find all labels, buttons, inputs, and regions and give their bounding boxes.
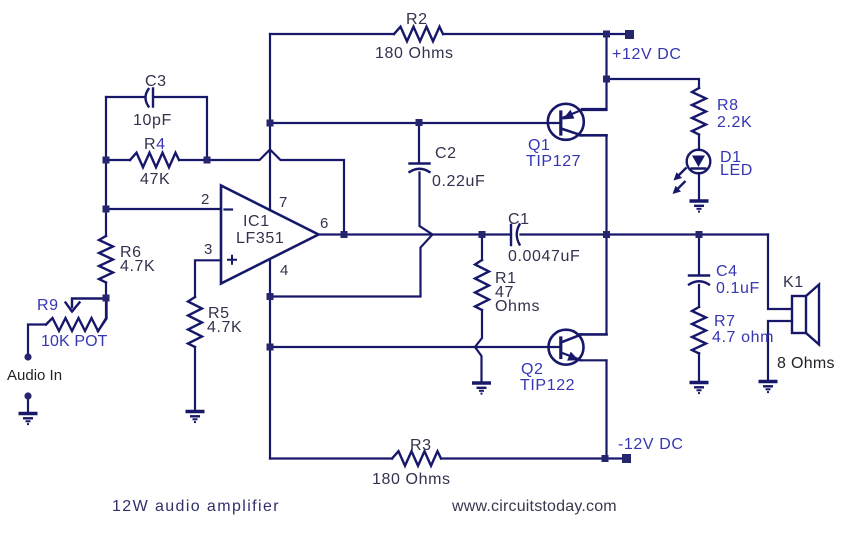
wire vertical +12V rail to Q1 emitter [582, 34, 607, 109]
svg-text:R3: R3 [410, 437, 432, 454]
resistor R4 [130, 153, 179, 168]
svg-text:3: 3 [204, 241, 212, 258]
capacitor C3 [146, 89, 154, 107]
wire C4 top lead [698, 235, 700, 276]
wire right rail Q1 collector to Q2 collector [605, 135, 607, 334]
capacitor C4 [689, 276, 709, 285]
wire Q2 emitter to -12V rail [607, 361, 623, 459]
capacitor C3 leads [106, 97, 207, 160]
svg-text:Audio In: Audio In [7, 367, 62, 384]
wire pin2 [106, 208, 221, 210]
terminal -12V square [622, 454, 631, 463]
LED D1 circle [687, 150, 711, 174]
ground (LED D1) [690, 201, 709, 212]
node pot top [103, 295, 110, 302]
ground (speaker) [759, 382, 778, 393]
node C2 top [416, 119, 423, 126]
wire output rail [319, 233, 768, 235]
wire speaker upper lead [768, 235, 792, 310]
transistor Q1 collector [561, 129, 607, 136]
node R1 top [479, 231, 486, 238]
svg-text:R7: R7 [714, 313, 736, 330]
svg-text:R9: R9 [37, 297, 59, 314]
svg-text:C1: C1 [508, 211, 530, 228]
wire speaker lower lead to ground [768, 321, 792, 379]
transistor Q1 emitter arrow (PNP, pointing at base) [563, 110, 575, 120]
wire R1 bottom with hop over Q2 base line, to ground [475, 310, 482, 381]
svg-text:C4: C4 [716, 263, 738, 280]
node output right rail [603, 231, 610, 238]
svg-text:Ohms: Ohms [495, 298, 540, 315]
wire pin7 vertical from top rail to op-amp [269, 34, 271, 210]
transistor Q1 emitter [561, 110, 607, 119]
transistor Q1 base bar [559, 112, 562, 134]
node R4 left [103, 157, 110, 164]
svg-text:+12V DC: +12V DC [612, 46, 682, 63]
terminal audio in dot [24, 353, 31, 360]
svg-text:www.circuitstoday.com: www.circuitstoday.com [451, 498, 617, 515]
svg-text:10pF: 10pF [133, 112, 172, 129]
resistor R8 [692, 88, 706, 135]
svg-text:0.22uF: 0.22uF [432, 173, 485, 190]
wire R9 left lead to Audio In [28, 325, 46, 355]
op-amp minus sign [225, 208, 233, 210]
svg-text:2.2K: 2.2K [717, 114, 752, 131]
wire C2 top lead [418, 123, 420, 163]
wire left rail x=106 [105, 97, 107, 236]
node +12V top [603, 31, 610, 38]
transistor Q1 circle [548, 104, 584, 140]
svg-text:7: 7 [279, 194, 287, 211]
svg-text:12W audio amplifier: 12W audio amplifier [112, 498, 280, 515]
svg-text:IC1: IC1 [243, 213, 270, 230]
svg-text:0.1uF: 0.1uF [716, 280, 760, 297]
ground (R7) [690, 383, 709, 394]
terminal +12V square [625, 30, 634, 39]
speaker K1 cone [806, 285, 819, 345]
node feedback at output [341, 231, 348, 238]
wire pin4 vertical down to bottom rail [269, 261, 271, 459]
wire R7 to ground [698, 353, 700, 381]
node -12V [602, 455, 609, 462]
op-amp plus sign [228, 256, 236, 264]
resistor R2 [394, 27, 443, 42]
node R8 tap [603, 76, 610, 83]
op-amp U1 triangle [221, 186, 319, 284]
ground (R1) [472, 383, 491, 394]
resistor R3 [392, 451, 441, 466]
svg-text:R2: R2 [406, 11, 428, 28]
wire R8 to LED D1 [698, 135, 700, 150]
svg-text:8 Ohms: 8 Ohms [777, 355, 835, 372]
resistor R1 [475, 260, 489, 310]
svg-text:Q2: Q2 [521, 361, 544, 378]
wire LED to ground [698, 173, 700, 200]
wire Q2 base rail y=347 [270, 346, 560, 348]
wire top rail from pin7 corner to +12V terminal [270, 33, 625, 35]
svg-text:TIP127: TIP127 [526, 153, 581, 170]
svg-text:180 Ohms: 180 Ohms [375, 45, 454, 62]
potentiometer R9 wiper arrow [66, 299, 107, 312]
speaker K1 box [792, 296, 806, 333]
ground (audio in) [19, 414, 38, 425]
wire bottom rail [270, 457, 607, 459]
svg-text:LED: LED [720, 162, 753, 179]
wire R5 to ground [194, 347, 196, 409]
transistor Q2 emitter arrow (NPN, pointing out) [567, 352, 579, 361]
svg-text:180 Ohms: 180 Ohms [372, 471, 451, 488]
svg-text:-12V DC: -12V DC [618, 436, 684, 453]
svg-text:TIP122: TIP122 [520, 377, 575, 394]
svg-text:R8: R8 [717, 97, 739, 114]
potentiometer R9 body [46, 298, 107, 331]
transistor Q2 emitter [561, 353, 607, 361]
resistor R7 [692, 307, 706, 354]
wire pin3 [195, 260, 221, 297]
capacitor C2 [410, 164, 430, 173]
svg-text:K1: K1 [783, 274, 804, 291]
node R4 right [204, 157, 211, 164]
svg-text:C2: C2 [435, 145, 457, 162]
svg-text:47K: 47K [140, 171, 170, 188]
svg-text:6: 6 [320, 215, 328, 232]
terminal audio ground dot [24, 392, 31, 399]
svg-text:2: 2 [201, 191, 209, 208]
wire R1 top lead [481, 235, 483, 261]
node junction dots [24, 30, 702, 463]
resistor R5 [188, 297, 202, 347]
wire feedback with hop over pin7 line [207, 150, 344, 235]
svg-text:10K POT: 10K POT [41, 333, 108, 350]
node pin7 rail [267, 120, 274, 127]
transistor Q2 circle [549, 330, 584, 365]
node C4 top [696, 231, 703, 238]
resistor R6 [99, 236, 113, 283]
svg-text:4.7 ohm: 4.7 ohm [712, 329, 774, 346]
wire C2 bottom with hop over output, to pin4 node [270, 173, 433, 297]
svg-text:4.7K: 4.7K [207, 319, 242, 336]
svg-text:R4: R4 [144, 136, 166, 153]
node pin2 [103, 206, 110, 213]
node pin4 / C2 return [267, 293, 274, 300]
LED D1 emission arrows [673, 168, 687, 195]
ground (R5) [186, 412, 205, 423]
wire R8 tap from +12V rail [607, 79, 700, 88]
transistor Q2 collector [561, 334, 607, 342]
resistor R4 leads [106, 159, 207, 161]
wire base rail y=123 to Q1 [270, 122, 560, 124]
wire C4 to R7 [698, 285, 700, 307]
svg-text:Q1: Q1 [528, 137, 551, 154]
svg-text:C3: C3 [145, 73, 167, 90]
svg-text:LF351: LF351 [236, 230, 284, 247]
wire audio-in ground stub [27, 396, 29, 412]
svg-text:0.0047uF: 0.0047uF [508, 248, 580, 265]
node Q2 base rail [267, 344, 274, 351]
wire R6 bottom to pot node [98, 283, 106, 332]
transistor Q2 base bar [559, 338, 562, 358]
svg-text:4.7K: 4.7K [120, 258, 155, 275]
capacitor C1 [511, 225, 520, 246]
svg-text:4: 4 [280, 262, 288, 279]
LED D1 triangle and cathode bar [691, 156, 707, 169]
